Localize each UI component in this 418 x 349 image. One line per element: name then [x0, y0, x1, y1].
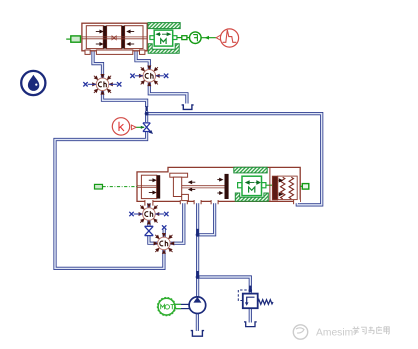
tank T1 [182, 105, 194, 110]
watermark text [316, 326, 389, 338]
wire junction J1 to variable orifice X1 [145, 111, 148, 122]
junction J3 node [196, 271, 200, 279]
signal wire source to force converter [201, 36, 216, 40]
wire X1 to left trunk to Ch4 bottom [55, 132, 164, 269]
valve V2 spring section walls [270, 168, 297, 201]
mass M1 guide hatch bottom [148, 44, 179, 53]
wire junction J1 to valve2 port R (long right line) [147, 114, 322, 205]
gain k output port [131, 125, 136, 130]
valve V2 centering springs [281, 177, 294, 199]
fluid properties icon [21, 71, 45, 95]
tank T2 [191, 331, 204, 337]
valve V1 spool rod [82, 37, 147, 39]
wire pump bottom to tank T2 [196, 314, 199, 331]
valve V2 body (main spool valve, middle) [137, 167, 300, 201]
relief valve RV1 spring [258, 300, 273, 305]
wire Ch2 bottom to tank T1 [149, 82, 187, 104]
chamber Ch1 [83, 74, 121, 94]
junction J2 node [196, 229, 200, 237]
valve V2 spring end land [272, 176, 277, 200]
shaft MOT to pump [175, 304, 189, 308]
tank T3 [244, 322, 257, 327]
variable orifice X1 [143, 123, 153, 134]
wire valve1 port2 to Ch2 [136, 51, 149, 71]
wire Ch3 bottom to orifice X2 [147, 220, 150, 226]
valve V1 spool joint [112, 36, 116, 40]
orifice X2 [145, 226, 154, 235]
mass M2 body [238, 176, 266, 195]
mass M1 guide hatch top [148, 23, 180, 29]
valve V1 spool lands [103, 26, 124, 49]
valve V2 right connector [300, 184, 309, 190]
wire Ch4 right to valve2 port A [170, 202, 184, 244]
valve V2 flow arrows [149, 178, 223, 194]
prime mover MOT [157, 297, 175, 315]
wire relief valve to tank T3 [249, 308, 252, 322]
valve V2 signal duplicate port [95, 184, 138, 189]
chamber Ch4 [154, 225, 174, 253]
chamber Ch2 [130, 66, 168, 86]
mass M1 body [150, 30, 177, 46]
valve V2 spring arrows [279, 179, 283, 196]
link mass M2 to spring pack [266, 184, 272, 186]
valve V2 spool lands [157, 174, 229, 199]
valve V2 port channel walls [145, 200, 294, 206]
gain k signal source [112, 118, 129, 135]
signal source S1 output port [216, 35, 220, 40]
wire X2 bottom to Ch4 left [149, 236, 158, 244]
signal source S1 (piecewise signal) [220, 29, 238, 47]
wire Ch4 top stub (plugged) [163, 230, 166, 238]
relief valve RV1 pilot dashed line [238, 290, 248, 301]
wire junction J2 branch to valve2 port B [198, 202, 215, 235]
wire Ch1 bottom to junction J1 [103, 91, 147, 108]
mass M2 guide hatch top [234, 167, 267, 173]
svg-text:Amesim: Amesim [316, 327, 353, 338]
signal wire k to X1 [136, 126, 144, 129]
wire junction J3 branch to relief valve [198, 277, 251, 293]
valve V2 left chamber [141, 173, 188, 200]
link mass M1 to force converter [177, 36, 190, 40]
valve V1 body (pilot spool valve, top) [82, 23, 147, 54]
valve V1 left rod connector [66, 36, 80, 42]
valve V2 spool rod [137, 186, 225, 188]
pump P1 [189, 297, 206, 314]
wire valve2 port P to pump [196, 202, 199, 297]
valve V1 flow arrows [96, 30, 134, 45]
wire valve1 port1 to Ch1 [93, 51, 103, 79]
watermark logo [293, 325, 307, 339]
force converter U1 (signal to force) [190, 32, 202, 44]
relief valve RV1 [243, 294, 258, 309]
valve V2 bottom port openings [145, 200, 300, 204]
chamber Ch3 [129, 204, 168, 224]
junction J4 node at relief inlet [249, 286, 253, 293]
junction J1 node [145, 106, 149, 115]
mass M2 guide hatch bottom [235, 193, 268, 201]
wire valve2 port T to Ch3 top [147, 202, 150, 208]
